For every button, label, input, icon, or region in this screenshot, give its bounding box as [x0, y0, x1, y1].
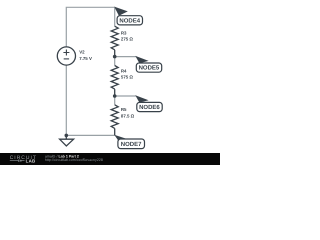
wire NODE6 stub	[115, 95, 137, 97]
svg-text:R4: R4	[121, 68, 127, 73]
svg-text:NODE7: NODE7	[121, 141, 142, 148]
node NODE5 box	[136, 63, 161, 72]
wire NODE5 stub	[115, 56, 137, 58]
light wire group	[66, 7, 136, 135]
svg-text:NODE5: NODE5	[139, 65, 160, 72]
svg-text:NODE6: NODE6	[139, 104, 160, 111]
node NODE6 box	[137, 102, 162, 111]
svg-text:http://circuitlab.com/cecf5eva: http://circuitlab.com/cecf5evacny228	[45, 158, 103, 162]
wire left vertical from V2 bottom to ground rail	[65, 65, 67, 135]
svg-text:575 Ω: 575 Ω	[121, 74, 134, 79]
node NODE6 flag pointer	[135, 95, 148, 102]
wire bottom rail	[66, 134, 114, 136]
svg-text:275 Ω: 275 Ω	[121, 37, 134, 42]
node NODE4 box	[117, 16, 142, 25]
junction node A (R3/R4)	[113, 55, 117, 59]
svg-text:R5: R5	[121, 107, 127, 112]
voltage source V2 circle	[57, 47, 75, 65]
ground triangle	[60, 139, 74, 146]
V2 plus sign	[63, 50, 69, 56]
svg-text:R3: R3	[121, 31, 127, 36]
resistor R3	[111, 26, 118, 50]
V2 minus sign	[64, 58, 69, 60]
node NODE7 flag pointer	[114, 135, 128, 142]
wire node A to R4 top	[114, 57, 116, 66]
node NODE4 flag pointer	[114, 7, 128, 16]
wire R3 bottom lead	[114, 50, 116, 57]
wire R4 bottom lead	[114, 89, 116, 96]
node NODE5 flag pointer	[135, 56, 148, 63]
watermark bar	[0, 153, 220, 165]
wire top rail from V2 top to R3 stub	[66, 7, 114, 47]
CircuitLab logo line and LAB	[10, 160, 25, 162]
junction node B (R4/R5)	[113, 94, 117, 98]
ground stub	[65, 135, 67, 139]
svg-text:LAB: LAB	[26, 158, 36, 163]
svg-text:NODE4: NODE4	[119, 17, 140, 24]
svg-text:V2: V2	[79, 49, 85, 54]
svg-text:7.75 V: 7.75 V	[79, 56, 92, 61]
junction node bottom-left	[65, 134, 69, 138]
resistor R5	[111, 105, 118, 129]
svg-text:87.5 Ω: 87.5 Ω	[121, 113, 135, 118]
node NODE7 box	[118, 139, 145, 149]
wire node B to R5 top	[114, 96, 116, 105]
wire R5 bottom lead	[114, 128, 116, 135]
resistor R4	[111, 66, 118, 90]
